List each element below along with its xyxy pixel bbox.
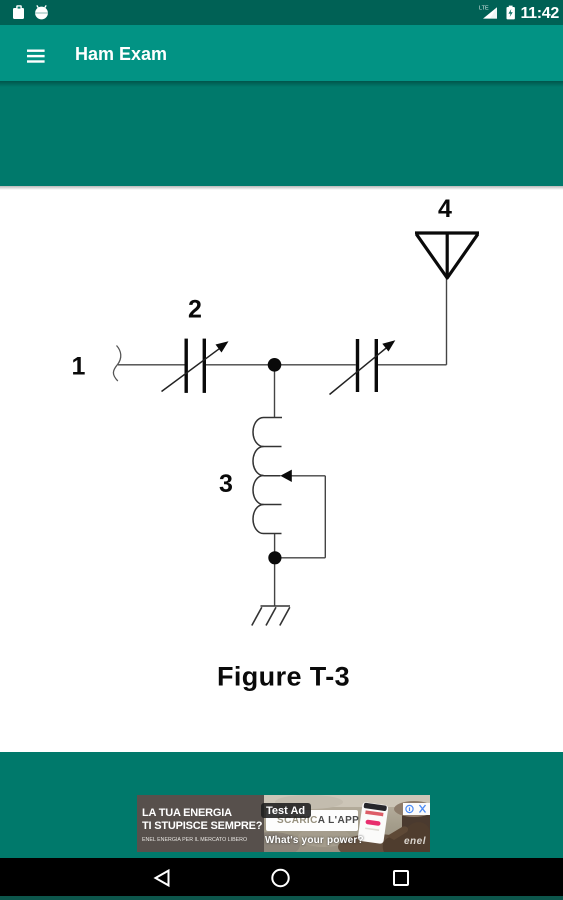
svg-text:1: 1	[72, 353, 86, 381]
svg-text:2: 2	[188, 296, 202, 324]
svg-text:4: 4	[438, 195, 452, 223]
svg-text:3: 3	[219, 470, 233, 498]
svg-text:Figure T-3: Figure T-3	[217, 662, 350, 692]
